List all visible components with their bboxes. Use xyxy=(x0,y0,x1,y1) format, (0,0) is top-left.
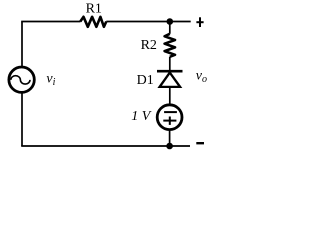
svg-text:R1: R1 xyxy=(86,2,102,17)
resistor R2 xyxy=(165,34,175,57)
diode D1 (cathode bar) xyxy=(157,70,183,73)
wire bottom (left corner to node B) xyxy=(21,145,169,147)
AC source sine wave xyxy=(11,76,30,84)
wire top (from left corner to R1) xyxy=(21,21,80,23)
diode D1 (triangle, outline, apex up) xyxy=(160,73,181,87)
source V1 minus sign (inside, top) xyxy=(164,111,177,113)
svg-text:1 V: 1 V xyxy=(131,109,152,124)
source V1 1V (circle) xyxy=(157,105,182,130)
source V1 plus sign (inside, bottom) xyxy=(163,117,176,125)
node B junction dot (bottom) xyxy=(166,143,173,150)
node A junction dot (top) xyxy=(167,18,174,25)
svg-text:D1: D1 xyxy=(137,73,154,88)
resistor R1 xyxy=(80,17,106,27)
wire (battery to node B) xyxy=(169,131,171,146)
wire (D1 to battery) xyxy=(169,87,171,104)
wire bottom right (node B to - terminal) xyxy=(170,145,190,147)
svg-text:R2: R2 xyxy=(141,38,157,53)
wire (node A down to R2) xyxy=(169,22,171,34)
wire left bottom (AC source to bottom corner) xyxy=(21,93,23,146)
wire left top (corner to AC source) xyxy=(21,22,23,67)
minus terminal xyxy=(196,142,204,144)
plus terminal xyxy=(196,17,203,27)
AC source vi (circle) xyxy=(9,67,34,92)
wire top right (node A to + terminal) xyxy=(170,21,191,23)
wire (R2 to D1) xyxy=(169,57,171,71)
wire top (from R1 to node A) xyxy=(106,21,170,23)
